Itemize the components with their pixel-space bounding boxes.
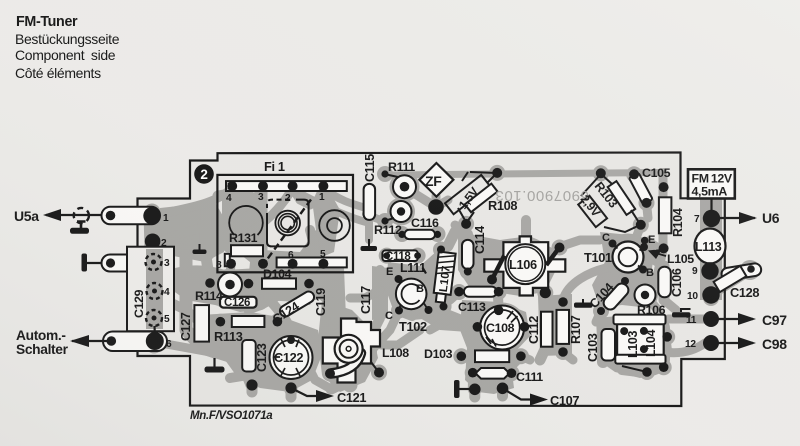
ground mid xyxy=(582,299,584,303)
pad pill pin1 xyxy=(102,207,161,225)
wire trace C123 column xyxy=(248,338,252,385)
wire dashed pin3 xyxy=(142,258,153,270)
resistor R108 xyxy=(465,184,498,213)
node Fi1 pin8b xyxy=(258,259,268,269)
IC Fi1 box xyxy=(217,175,353,272)
wire Autom lead xyxy=(72,340,111,342)
wire trace Fi1 interior xyxy=(218,194,262,262)
pin strip Fi1 top xyxy=(226,181,347,191)
pad halos xyxy=(377,166,393,182)
pin strip Fi1 bottom xyxy=(277,258,347,268)
pin8 tab xyxy=(225,254,230,266)
node L107 bottom xyxy=(440,303,448,311)
capacitor C115 xyxy=(364,184,376,220)
wire trace C128 diag xyxy=(713,268,753,293)
wire R103 bottom xyxy=(604,210,640,232)
wire U6 arrow xyxy=(712,217,756,219)
node C107 pad xyxy=(497,383,509,395)
transistor L106 xyxy=(484,236,565,295)
wire trace right column xyxy=(703,198,719,298)
coil L113 xyxy=(695,229,726,264)
coil Fi1 right circle xyxy=(319,210,350,241)
wire trace R113 row xyxy=(220,317,277,326)
wire trace Fi1 sweep pin2 xyxy=(204,188,293,252)
node C113 left xyxy=(454,287,464,297)
resistor R112 trimmer xyxy=(391,201,412,222)
wire trace left connector band xyxy=(152,212,153,250)
node R108 top xyxy=(492,168,502,178)
copper pour T102 L107 xyxy=(386,250,452,320)
node ZF pad xyxy=(428,199,444,215)
resistor R104 xyxy=(659,197,672,233)
pin4 dashed xyxy=(147,283,163,299)
wire trace D103 C111 columns xyxy=(475,332,476,389)
copper pour T102 to C108 link xyxy=(420,300,470,332)
capacitor C106 xyxy=(658,267,671,298)
capacitor C127 xyxy=(194,305,209,342)
node R103 top xyxy=(596,168,606,178)
capacitor C112 xyxy=(541,312,553,347)
copper pour below Fi1 xyxy=(248,262,340,302)
node R104 top xyxy=(659,182,669,192)
diode D104 xyxy=(262,278,296,288)
node pin12 xyxy=(703,335,719,351)
resistor R131 xyxy=(231,245,263,256)
transistor T102 xyxy=(396,279,427,310)
wire FM12V to pin7 xyxy=(710,199,712,215)
copper pour C119 C117 xyxy=(328,268,346,320)
node pin2 xyxy=(145,234,161,250)
coil Fi1 left circle xyxy=(229,206,263,235)
resistor R106 trimmer xyxy=(635,285,656,306)
wire trace C108 blob xyxy=(477,303,527,353)
wire trace L107 band xyxy=(442,250,445,306)
ground bottom left xyxy=(213,358,215,367)
wire trace G9 column xyxy=(205,205,206,250)
capacitor C103 xyxy=(602,329,616,361)
wire C97 arrow xyxy=(711,318,753,320)
label pins top xyxy=(161,192,700,350)
copper pour left of Fi1 xyxy=(196,204,215,261)
resistor R107 xyxy=(557,310,570,344)
copper pour Fi1 interior xyxy=(222,192,340,266)
wire trace C122 blob xyxy=(264,330,318,384)
wire to pin3 pad xyxy=(87,262,110,264)
wire pin5 to pin6 xyxy=(153,326,156,333)
wire trace R103 bottom blob xyxy=(634,225,641,243)
ground near Fi1 left xyxy=(199,244,201,250)
wire trace L103 L104 blob xyxy=(606,318,670,370)
node Fi1 pin8a xyxy=(226,259,236,269)
wire R108 bottom xyxy=(458,208,474,222)
board fill xyxy=(138,153,725,407)
box FM12V xyxy=(688,169,735,198)
node near C104 xyxy=(621,277,629,285)
node pad below C122 left xyxy=(246,379,257,390)
node Fi1 pin2 xyxy=(288,181,298,191)
node pin7 xyxy=(703,210,720,227)
capacitor C116 xyxy=(405,230,436,239)
capacitor trimmer dashed circle xyxy=(74,208,89,223)
node Autom arrow xyxy=(70,335,89,347)
wire trace D104 row xyxy=(249,279,310,288)
wire trace pin6 right xyxy=(155,342,242,362)
wire trace Fi1 sweep pin1 to C115 xyxy=(323,188,366,208)
node Fi1 pin5 xyxy=(318,259,328,269)
resistor R113 xyxy=(232,316,265,327)
wire trace top bus xyxy=(388,173,663,176)
ground near C115 xyxy=(368,239,370,247)
capacitor C104 xyxy=(601,281,631,312)
pad pill pin6 xyxy=(103,332,167,352)
transistor T101 xyxy=(613,242,644,273)
badge 2 xyxy=(194,164,214,184)
node ZF diamond xyxy=(419,163,453,197)
coil L103 L104 assembly xyxy=(617,322,664,356)
copper pour mid cluster xyxy=(172,265,318,312)
ground right mid xyxy=(680,308,691,310)
trimmer C122 xyxy=(270,336,313,379)
wire trace R106 blob xyxy=(632,282,658,308)
node C118 left xyxy=(383,252,390,259)
trimmer Fi1 middle circles xyxy=(275,211,300,236)
pin3 dashed xyxy=(146,254,162,270)
wire trace R111 pad xyxy=(390,172,420,202)
node pin11 xyxy=(703,311,719,327)
wire R103 top xyxy=(581,174,612,196)
wire trace C113 row xyxy=(459,288,499,297)
wire trace bottom stubs xyxy=(286,388,297,397)
transistor C108 xyxy=(480,306,524,350)
copper pour L108 xyxy=(318,300,378,392)
copper pour C108 column xyxy=(460,300,530,394)
resistor R103 xyxy=(608,181,635,215)
wire trace C112 R107 columns xyxy=(540,312,546,360)
node Fi1 pin3 xyxy=(258,181,268,191)
wire trace Fi1 pin8 down xyxy=(230,264,231,275)
wire trace pin2 stub xyxy=(153,241,204,254)
wire trace left band lower xyxy=(165,300,186,310)
diode D103 xyxy=(475,350,509,362)
node pin9 xyxy=(701,262,718,279)
node pin6 xyxy=(146,332,164,350)
node R104 bottom xyxy=(659,243,669,253)
node C121 pad xyxy=(285,382,296,393)
capacitor C111 xyxy=(476,368,510,379)
node C114 bottom xyxy=(464,268,472,276)
wire L105 arrow xyxy=(652,252,666,256)
wire trace C106 column xyxy=(659,266,670,300)
coil L108 xyxy=(323,319,380,383)
node Fi1 pin6 xyxy=(288,259,298,269)
resistor R111 trimmer xyxy=(393,175,416,198)
wire trace C114 column xyxy=(463,234,473,272)
copper pour C112 R107 xyxy=(538,294,572,356)
resistor 2,9V bracket xyxy=(578,196,607,227)
node T102 C xyxy=(395,307,403,315)
wire trace C105 xyxy=(634,175,648,219)
wire trace pin11 stub xyxy=(668,315,704,324)
wire trace C119 column xyxy=(330,275,336,335)
capacitor C113 xyxy=(464,287,497,297)
connector C129 box xyxy=(127,247,174,332)
board outline xyxy=(138,153,725,407)
copper pour L106 C114 xyxy=(458,230,556,296)
wire trace T101 blob xyxy=(605,234,652,281)
ground antenna symbol xyxy=(77,222,86,229)
wire Fi1 diagonal dashed xyxy=(263,185,325,265)
copper pour left connector junction xyxy=(158,202,228,262)
capacitor C124 xyxy=(278,289,316,318)
pin5 dashed xyxy=(146,310,162,326)
copper pour R113 C123 C122 xyxy=(198,312,322,392)
wire trace C127 column xyxy=(186,256,215,352)
node Fi1 pin4 xyxy=(227,181,237,191)
box C118 xyxy=(382,250,417,261)
wire trace C104 diag xyxy=(601,282,625,311)
node pin1 xyxy=(143,207,160,224)
pad pill pin3 xyxy=(102,255,143,272)
wire trace R114 region xyxy=(214,269,246,301)
wire trace C124 diag xyxy=(277,291,316,318)
node Fi1 pin1 xyxy=(318,181,328,191)
wire trace T102 blob xyxy=(391,273,433,315)
wire trace L106 blob xyxy=(499,237,553,291)
box C126 xyxy=(220,297,257,308)
wire C98 arrow xyxy=(711,342,753,344)
capacitor C105 xyxy=(629,173,653,205)
wire trace R112 link xyxy=(366,211,401,221)
ground bar left xyxy=(82,254,88,272)
node pin10 xyxy=(702,286,719,303)
wire U5a lead xyxy=(46,214,110,216)
wire R108 top xyxy=(462,172,497,183)
resistor 1,5V bracket xyxy=(445,175,490,214)
copper pour right column xyxy=(700,198,722,300)
node L107 top xyxy=(437,246,445,254)
node C113 right xyxy=(494,287,504,297)
wire trace pin12 stub xyxy=(664,343,705,353)
wire trace C126 row xyxy=(222,297,256,308)
node T102 B xyxy=(425,306,433,314)
wire trace R108 top pad xyxy=(489,165,505,181)
node R108 bottom xyxy=(461,219,471,229)
copper pour T101 region xyxy=(592,232,658,308)
node T102 E xyxy=(395,275,403,283)
wire trace Fi1 sweep pin3 xyxy=(158,188,263,240)
wire trace C117 column xyxy=(362,270,380,340)
node R103 bottom xyxy=(636,220,646,230)
trimmer Fi1 middle square dashed xyxy=(267,200,309,247)
copper pour L103 region xyxy=(596,314,672,378)
ground near C107 xyxy=(454,380,460,398)
wire trace L108 blob xyxy=(323,325,377,379)
wire C107 arrow xyxy=(503,388,545,399)
capacitor C123 xyxy=(242,340,256,372)
capacitor C128 pad capsule xyxy=(721,263,762,282)
resistor R114 trimmer xyxy=(218,273,242,297)
wire trace R108 bottom blob xyxy=(448,224,466,246)
node C118 right xyxy=(414,252,421,259)
wire trace Fi1 sweep pin4 xyxy=(156,188,232,215)
node C105 top xyxy=(629,169,639,179)
wire trace R104 column xyxy=(658,173,676,311)
node U5a arrow xyxy=(43,209,61,221)
wire C121 arrow xyxy=(291,388,330,396)
coil L107 xyxy=(433,252,456,304)
node E dot right xyxy=(641,237,649,245)
capacitor C128 body xyxy=(714,266,747,292)
capacitor C114 xyxy=(462,240,474,269)
node C105 bottom xyxy=(642,198,652,208)
